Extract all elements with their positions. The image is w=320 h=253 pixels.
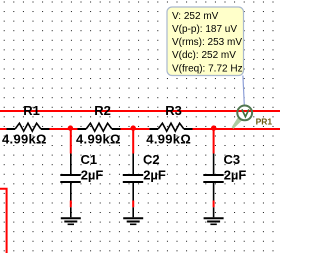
svg-text:V(rms): 253 mV: V(rms): 253 mV — [172, 37, 242, 48]
svg-text:4.99kΩ: 4.99kΩ — [2, 131, 47, 146]
junction node C — [211, 125, 216, 130]
svg-text:PR1: PR1 — [256, 117, 273, 127]
svg-text:R2: R2 — [94, 103, 111, 118]
svg-text:4.99kΩ: 4.99kΩ — [76, 131, 121, 146]
wire: node B down to C2 — [132, 129, 134, 154]
svg-text:C1: C1 — [81, 152, 98, 167]
capacitor C2 — [123, 154, 143, 201]
probe PR1 ring — [237, 106, 252, 121]
wire: bottom-left L-shaped wire — [0, 189, 7, 253]
capacitor C1 — [60, 154, 80, 201]
capacitor C3 — [203, 154, 223, 201]
svg-text:2µF: 2µF — [81, 168, 104, 183]
probe PR1 handle — [232, 117, 242, 129]
probe leader line — [243, 76, 244, 106]
junction node A — [68, 125, 73, 130]
svg-text:V(dc): 252 mV: V(dc): 252 mV — [172, 50, 236, 61]
wire: R1 to R2 (node A) — [50, 128, 78, 130]
svg-text:V: 252 mV: V: 252 mV — [172, 11, 219, 22]
svg-text:V(freq): 7.72 Hz: V(freq): 7.72 Hz — [172, 63, 243, 74]
ground under C3 — [204, 207, 224, 224]
svg-text:R1: R1 — [23, 103, 40, 118]
svg-text:C2: C2 — [143, 152, 160, 167]
svg-text:4.99kΩ: 4.99kΩ — [146, 131, 191, 146]
ground under C1 — [61, 207, 81, 224]
wire: input stub left of R1 — [0, 128, 7, 130]
svg-text:2µF: 2µF — [143, 168, 166, 183]
probe PR1 V glyph — [242, 109, 249, 116]
svg-text:2µF: 2µF — [224, 168, 247, 183]
wire: C3 to ground — [213, 201, 215, 208]
wire over probe body — [237, 110, 254, 112]
wire: R2 to R3 (node B) — [121, 128, 150, 130]
measurement box — [167, 7, 244, 76]
svg-text:C3: C3 — [224, 152, 241, 167]
resistor R3 — [150, 123, 193, 131]
svg-text:R3: R3 — [165, 103, 182, 118]
resistor R2 — [78, 123, 121, 131]
junction node B — [131, 125, 136, 130]
svg-text:V(p-p): 187 uV: V(p-p): 187 uV — [172, 24, 237, 35]
wire: R3 to output edge (node C) — [193, 128, 281, 130]
wire: top net horizontal — [0, 110, 280, 112]
wire: C1 to ground — [70, 201, 72, 208]
wire: C2 to ground — [132, 201, 134, 208]
resistor R1 — [7, 123, 50, 131]
wire: node C down to C3 — [213, 129, 215, 154]
ground under C2 — [123, 207, 143, 224]
probe PR1 body — [237, 106, 252, 121]
wire: node A down to C1 — [70, 129, 72, 154]
